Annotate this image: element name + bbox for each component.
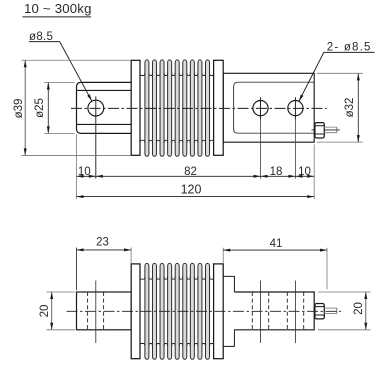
svg-text:ø39: ø39 [13, 99, 25, 119]
gland collar [324, 127, 337, 132]
hole axis left (bottom view) [95, 281, 97, 344]
svg-text:ø32: ø32 [344, 98, 356, 118]
dim ø32 line [357, 73, 359, 142]
dim 23 extension lines [76, 248, 78, 291]
dim row1 10b [295, 175, 314, 177]
dim row1 82 [96, 175, 261, 177]
hidden hole edges right (dashed) [252, 292, 303, 330]
svg-text:23: 23 [96, 237, 109, 249]
title underline [22, 16, 91, 18]
bellows fins (bottom view) [145, 263, 210, 359]
hole axis right 2 [294, 97, 296, 119]
bellows valley connectors bottom [140, 140, 214, 143]
dim 41 extension lines [222, 248, 224, 264]
wire end edge [336, 127, 338, 132]
cable gland (top view) centerline [312, 129, 340, 131]
dim row1 18 [261, 175, 296, 177]
left block lower face line [77, 123, 131, 125]
gland collar (bottom view) [324, 308, 337, 313]
wire end edge (bottom view) [336, 308, 338, 313]
dim 23 line [77, 249, 132, 251]
main centerline (bottom view) [67, 310, 342, 312]
main centerline (top view) [71, 107, 327, 109]
hole axis right 1 [260, 97, 262, 119]
hole axis left [95, 96, 97, 178]
left shaft (bottom view) [77, 292, 132, 330]
hole circle left block [88, 100, 104, 116]
dim 20 right extension lines [318, 292, 371, 330]
collar right of bellows [223, 276, 234, 346]
svg-text:82: 82 [184, 166, 197, 178]
svg-text:10: 10 [78, 166, 91, 178]
bellows valley connectors bottom (bottom view) [140, 344, 214, 347]
svg-text:ø25: ø25 [34, 98, 46, 118]
gland facet lines [315, 126, 324, 134]
right body flat face (rounded left corners) [234, 82, 315, 133]
svg-text:2- ø8.5: 2- ø8.5 [327, 41, 372, 53]
dim 20 left extension lines [46, 292, 74, 330]
bellows valley connectors top (bottom view) [140, 276, 214, 279]
hole circle right 2 [288, 101, 303, 116]
left block (top view) [77, 82, 132, 133]
dim 20 right line [365, 292, 367, 330]
svg-text:10 ~ 300kg: 10 ~ 300kg [24, 1, 92, 16]
extension line block left edge [76, 134, 78, 199]
hole axes right (bottom view) [261, 281, 296, 344]
svg-text:10: 10 [298, 166, 311, 178]
svg-text:ø8.5: ø8.5 [29, 31, 53, 43]
right shaft (bottom view) [234, 292, 314, 330]
dim ø39 line [24, 60, 26, 155]
dim 20 left line [51, 292, 53, 330]
gland facet lines (bottom view) [315, 307, 324, 315]
dim row1 10 [77, 175, 96, 177]
dim ø25 line [47, 83, 49, 134]
dim ø39 extension lines [21, 60, 131, 155]
cable gland nut [315, 123, 324, 138]
bellows end plate right [214, 60, 224, 155]
bellows valley connectors top [140, 73, 214, 76]
bellows end plate left [131, 60, 140, 155]
bellows end plate left (bottom view) [131, 264, 140, 359]
svg-text:120: 120 [181, 183, 202, 197]
svg-text:20: 20 [353, 302, 365, 315]
hidden hole edges left (dashed) [88, 292, 104, 330]
bellows fins (top view) [145, 60, 210, 156]
dim 41 line [223, 249, 327, 251]
dim row2 120 [77, 196, 315, 198]
svg-text:20: 20 [39, 305, 51, 318]
dim ø25 extension lines [44, 83, 75, 134]
svg-text:18: 18 [270, 166, 283, 178]
right body outer tube [223, 73, 314, 142]
dim ø32 extension lines [317, 73, 363, 142]
svg-text:41: 41 [270, 238, 283, 250]
hole circle right 1 [253, 101, 268, 116]
left block upper face line [77, 89, 131, 91]
cable gland nut (bottom view) [315, 304, 324, 319]
extension line block right edge [313, 144, 315, 199]
bellows end plate right (bottom view) [214, 264, 224, 359]
